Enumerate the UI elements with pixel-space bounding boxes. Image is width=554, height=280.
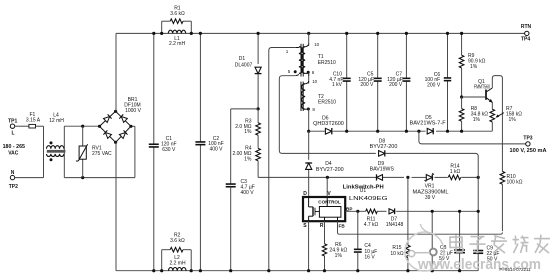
node C3 bottom bbox=[229, 269, 232, 272]
transistor Q1 FMMT560 bbox=[474, 79, 493, 103]
wire BP net bbox=[345, 210, 478, 212]
wire F1 to choke L4 bbox=[36, 125, 44, 127]
inductor L1 2.2 mH bbox=[168, 30, 185, 47]
capacitor C9 22 uF 50 V bbox=[473, 245, 499, 270]
wire D4 column bbox=[308, 131, 310, 197]
resistor R15 10 k bbox=[390, 177, 410, 270]
svg-text:100 kΩ: 100 kΩ bbox=[507, 179, 523, 185]
pin label BP bbox=[346, 206, 352, 211]
svg-text:1%: 1% bbox=[244, 129, 252, 135]
node R2/L2 left bbox=[160, 269, 163, 272]
pin label R bbox=[320, 223, 324, 229]
wire FB net bbox=[338, 221, 503, 234]
node R6 bottom rail bbox=[323, 269, 326, 272]
svg-text:VR1: VR1 bbox=[425, 183, 435, 189]
node D1 top rail bbox=[257, 32, 260, 35]
svg-text:10: 10 bbox=[312, 79, 317, 84]
svg-text:275 VAC: 275 VAC bbox=[92, 151, 112, 157]
node C8 top bbox=[458, 210, 461, 213]
node C1 top bbox=[152, 32, 155, 35]
svg-text:BYV27-200: BYV27-200 bbox=[316, 167, 344, 173]
svg-text:FB: FB bbox=[339, 223, 346, 228]
node C8 bottom rail bbox=[458, 269, 461, 272]
svg-text:L: L bbox=[11, 131, 14, 137]
svg-text:630 V: 630 V bbox=[162, 147, 176, 153]
svg-text:1 kV: 1 kV bbox=[332, 82, 343, 88]
node C4 bottom rail bbox=[356, 269, 359, 272]
node R14 to output column bbox=[477, 176, 480, 179]
transformer T1 secondary winding bbox=[302, 43, 309, 76]
wire Q1 base bbox=[462, 96, 486, 98]
label 180 - 265 VAC bbox=[3, 144, 26, 156]
svg-text:TP1: TP1 bbox=[8, 119, 17, 125]
resistor R7 158 k 1% bbox=[490, 106, 522, 131]
svg-text:TP4: TP4 bbox=[521, 37, 530, 43]
svg-text:8: 8 bbox=[312, 107, 315, 112]
terminal TP2 (N input) bbox=[9, 170, 18, 190]
resistor R11 4.7 k bbox=[364, 209, 379, 228]
node R2/L2 right bbox=[190, 269, 193, 272]
node R9/R8/base junction bbox=[460, 95, 463, 98]
svg-text:D1: D1 bbox=[239, 56, 246, 62]
svg-text:100 V, 250 mA: 100 V, 250 mA bbox=[510, 148, 547, 154]
pin label FB bbox=[339, 223, 346, 228]
node C1 bottom bbox=[152, 269, 155, 272]
polarity dot T1 pin6 bbox=[307, 71, 310, 74]
watermark url text bbox=[417, 256, 541, 273]
svg-text:1000 V: 1000 V bbox=[125, 108, 142, 114]
svg-text:1%: 1% bbox=[470, 64, 478, 70]
resistor R10 100 k bbox=[500, 171, 523, 231]
svg-text:1N4148: 1N4148 bbox=[386, 222, 404, 228]
node C10 bottom bbox=[345, 130, 348, 133]
capacitor C4 10 uF 16 V bbox=[354, 211, 377, 270]
svg-text:12 mH: 12 mH bbox=[49, 118, 64, 124]
wire Q1 emitter to R10 column bbox=[492, 76, 502, 172]
pin label 10 (T1) bbox=[314, 42, 319, 47]
svg-text:16 V: 16 V bbox=[364, 254, 375, 260]
node D9 anode / R15 junction bbox=[406, 176, 409, 179]
label T1 ER2510 bbox=[318, 54, 336, 66]
wire top rail (RTN) bbox=[116, 32, 525, 34]
svg-text:D: D bbox=[303, 191, 307, 197]
svg-text:200 V: 200 V bbox=[427, 83, 441, 89]
diode D4 BYV27-200 bbox=[305, 161, 344, 173]
node R9 top rail bbox=[460, 32, 463, 35]
wire T1 pin5 lead bbox=[279, 76, 376, 154]
wire C3 branch bbox=[231, 109, 258, 184]
node D1/R3/C3 junction bbox=[257, 107, 260, 110]
svg-text:2.2 mH: 2.2 mH bbox=[169, 41, 186, 47]
svg-text:1%: 1% bbox=[473, 117, 481, 123]
svg-text:BAV19WS: BAV19WS bbox=[370, 166, 395, 172]
drawing number PI-6514-072211 bbox=[499, 267, 531, 272]
pin label 8 bbox=[312, 107, 315, 112]
svg-text:ER2510: ER2510 bbox=[318, 100, 336, 106]
resistor R1 3.6 k bbox=[162, 6, 192, 34]
resistor R14 1 k bbox=[448, 164, 460, 180]
pin label 5 bbox=[288, 69, 291, 74]
node RV1 bottom bbox=[81, 176, 84, 179]
node bridge bottom bbox=[114, 141, 117, 144]
svg-text:TP3: TP3 bbox=[523, 135, 532, 141]
wire mystery column bbox=[431, 211, 433, 270]
terminal TP4 RTN bbox=[521, 24, 532, 43]
capacitor C7 120 uF 200 V bbox=[387, 33, 410, 131]
transformer T1 ER2510 primary winding bbox=[296, 47, 303, 76]
capacitor C6 100 nF 200 V bbox=[425, 33, 452, 131]
capacitor C1 120 nF 630 V bbox=[149, 33, 177, 270]
svg-text:4.7 kΩ: 4.7 kΩ bbox=[364, 222, 379, 228]
wire TP1 to fuse F1 bbox=[15, 125, 29, 127]
svg-text:FMMT560: FMMT560 bbox=[474, 85, 490, 91]
fuse F1 3.15 A bbox=[26, 112, 41, 128]
svg-text:1%: 1% bbox=[509, 117, 517, 123]
wire L rail choke to bridge bbox=[64, 125, 99, 127]
svg-text:ER2510: ER2510 bbox=[318, 60, 336, 66]
svg-text:R: R bbox=[320, 223, 324, 229]
svg-text:1 kΩ: 1 kΩ bbox=[450, 169, 461, 175]
node TP3 branch bbox=[417, 130, 420, 133]
svg-text:400 V: 400 V bbox=[241, 190, 255, 196]
resistor R6 24.9 k 1% bbox=[322, 221, 347, 271]
svg-text:3.15 A: 3.15 A bbox=[26, 118, 41, 124]
watermark chinese characters bbox=[450, 235, 550, 253]
capacitor C3 4.7 uF 400 V bbox=[226, 179, 255, 271]
common-mode choke L4 12 mH bbox=[44, 112, 66, 177]
wire T1 pin1 lead bbox=[269, 48, 296, 271]
wire T2 pin8 down to D6 node bbox=[308, 109, 310, 131]
transformer T1 core bbox=[301, 44, 303, 77]
svg-text:N: N bbox=[11, 170, 15, 176]
pin label S bbox=[303, 223, 307, 229]
capacitor C10 4.7 nF 1 kV bbox=[329, 33, 350, 131]
svg-text:TP2: TP2 bbox=[9, 184, 18, 190]
svg-text:BAV21WS-7-F: BAV21WS-7-F bbox=[410, 121, 446, 127]
wire bottom rail bbox=[116, 270, 478, 272]
node output column / BP end bbox=[477, 210, 480, 213]
svg-text:RTN: RTN bbox=[521, 24, 532, 30]
wire bridge bottom to bottom rail bbox=[115, 142, 117, 270]
svg-text:5: 5 bbox=[288, 69, 291, 74]
svg-text:6: 6 bbox=[312, 70, 315, 75]
svg-text:10 kΩ: 10 kΩ bbox=[390, 251, 403, 257]
svg-text:VAC: VAC bbox=[8, 151, 19, 157]
wire Q1 collector to R7 bbox=[491, 102, 493, 109]
svg-text:400 V: 400 V bbox=[209, 147, 223, 153]
svg-text:3.6 kΩ: 3.6 kΩ bbox=[170, 238, 185, 244]
node RV1 top bbox=[81, 125, 84, 128]
svg-text:200 V: 200 V bbox=[360, 82, 374, 88]
node R1/L1 right bbox=[190, 32, 193, 35]
svg-text:U1: U1 bbox=[360, 188, 367, 194]
node C10 top bbox=[345, 32, 348, 35]
pin label D bbox=[303, 191, 307, 197]
node C4 top bbox=[356, 210, 359, 213]
capacitor C8 22 uF 50 V bbox=[439, 211, 465, 270]
node R8 bottom bbox=[460, 130, 463, 133]
polarity dot L4 bottom bbox=[50, 158, 53, 161]
svg-text:10: 10 bbox=[314, 42, 319, 47]
svg-text:200 V: 200 V bbox=[389, 82, 403, 88]
svg-text:3.6 kΩ: 3.6 kΩ bbox=[170, 11, 185, 17]
capacitor C5 120 uF 200 V bbox=[358, 33, 381, 131]
node mystery column bottom rail bbox=[431, 269, 434, 272]
pin label V bbox=[327, 191, 331, 197]
diode D1 DL4007 bbox=[235, 33, 262, 109]
polarity dot L4 top bbox=[50, 141, 53, 144]
node C5 top bbox=[376, 32, 379, 35]
svg-text:1%: 1% bbox=[335, 253, 343, 259]
resistor R3 2.0 M 1% bbox=[235, 109, 260, 135]
diode D9 BAV19WS bbox=[370, 161, 395, 181]
node mystery column top bbox=[431, 210, 434, 213]
resistor R4 2.00 M 1% bbox=[232, 135, 260, 177]
svg-text:DL4007: DL4007 bbox=[235, 62, 253, 68]
node R1/L1 left bbox=[160, 32, 163, 35]
polarity dot T2 pin8 bbox=[307, 108, 310, 111]
inductor L2 2.2 mH bbox=[169, 255, 187, 271]
node V pin junction bbox=[326, 176, 329, 179]
diode D7 1N4148 bbox=[386, 208, 404, 228]
transformer T2 ER2510 winding bbox=[302, 81, 309, 109]
svg-text:BYV27-200: BYV27-200 bbox=[370, 144, 398, 150]
svg-text:LNK409EG: LNK409EG bbox=[349, 196, 388, 202]
capacitor C2 100 nF 400 V bbox=[195, 33, 223, 270]
resistor R9 90.9 k 1% bbox=[459, 33, 485, 97]
svg-text:1%: 1% bbox=[244, 156, 252, 162]
svg-text:1: 1 bbox=[286, 49, 289, 54]
svg-text:2.2 mH: 2.2 mH bbox=[169, 260, 186, 266]
varistor RV1 275 VAC bbox=[76, 126, 112, 177]
diode D5 BAV21WS-7-F bbox=[410, 115, 446, 134]
label T2 ER2510 bbox=[318, 94, 336, 106]
node S bottom rail bbox=[307, 269, 310, 272]
pin label 10 (T2) bbox=[312, 79, 317, 84]
node C6 top bbox=[446, 32, 449, 35]
wire V pin bbox=[326, 177, 328, 197]
svg-text:QHD3T2600: QHD3T2600 bbox=[313, 121, 344, 127]
diode D8 BYV27-200 bbox=[370, 138, 398, 156]
wire S pin to bottom rail bbox=[308, 221, 310, 271]
wire TP3 output bbox=[419, 131, 526, 144]
wire T1 pin10 to top rail bbox=[308, 33, 310, 46]
transformer T2 core bbox=[301, 82, 303, 111]
node bridge top bbox=[114, 110, 117, 113]
node bridge right bbox=[129, 125, 132, 128]
node T1 pin1 bottom rail bbox=[267, 269, 270, 272]
diode D6 QHD3T2600 bbox=[313, 115, 344, 134]
wire T1 pin6 to T2 pin10 bbox=[308, 73, 310, 84]
wire D6 output net bbox=[309, 130, 493, 132]
pin label 6 bbox=[312, 70, 315, 75]
wire TP2 to choke L4 bbox=[15, 177, 44, 179]
terminal TP3 100 V 250 mA bbox=[510, 135, 547, 153]
wire bridge top to top rail bbox=[115, 33, 117, 111]
svg-text:CONTROL: CONTROL bbox=[318, 199, 341, 204]
polarity dot T1 primary bbox=[294, 70, 297, 73]
wire V-pin net (R4 to D9 to R14) bbox=[258, 176, 478, 178]
zener diode VR1 MAZS3900ML 39 V bbox=[413, 173, 449, 201]
bridge rectifier BR1 DF10M 1000 V bbox=[100, 97, 142, 142]
node C7 top bbox=[405, 32, 408, 35]
resistor R2 3.6 k bbox=[162, 233, 192, 271]
svg-text:39 V: 39 V bbox=[425, 195, 436, 201]
node C2 bottom bbox=[199, 269, 202, 272]
wire D8 to output column bbox=[385, 153, 478, 250]
node C2 top bbox=[199, 32, 202, 35]
node C5 bottom bbox=[376, 130, 379, 133]
svg-text:BP: BP bbox=[346, 206, 352, 211]
wire N rail choke to bridge bbox=[64, 126, 135, 177]
node R15 bottom rail bbox=[406, 269, 409, 272]
resistor R8 34.8 k 1% bbox=[459, 97, 488, 131]
node C6 bottom bbox=[446, 130, 449, 133]
node bridge left bbox=[98, 125, 101, 128]
pin label 1 bbox=[286, 49, 289, 54]
node T2/D6/D4 junction bbox=[307, 130, 310, 133]
node C7 bottom bbox=[405, 130, 408, 133]
node T1 pin10 top rail bbox=[307, 32, 310, 35]
svg-text:180 - 265: 180 - 265 bbox=[3, 144, 26, 150]
svg-text:PI-6514-072211: PI-6514-072211 bbox=[499, 267, 531, 272]
terminal TP1 (L input) bbox=[8, 119, 17, 137]
IC U1 LinkSwitch-PH LNK409EG bbox=[303, 184, 388, 221]
watermark logo bbox=[405, 224, 444, 271]
